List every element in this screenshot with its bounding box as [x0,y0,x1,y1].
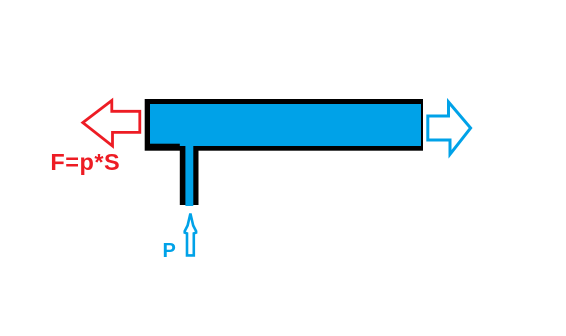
svg-text:F=p*S: F=p*S [50,149,120,175]
svg-text:P: P [163,240,176,262]
